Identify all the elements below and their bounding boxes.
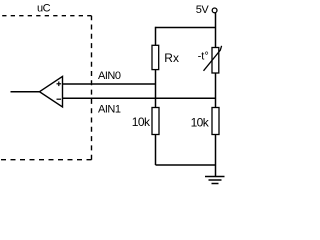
svg-text:AIN0: AIN0 [98,70,121,82]
svg-text:5V: 5V [196,4,210,16]
svg-text:Rx: Rx [164,51,179,65]
svg-text:10k: 10k [132,115,151,129]
svg-text:AIN1: AIN1 [98,104,121,116]
svg-text:uC: uC [37,2,51,14]
svg-text:10k: 10k [191,115,210,129]
svg-text:-t°: -t° [198,50,209,62]
